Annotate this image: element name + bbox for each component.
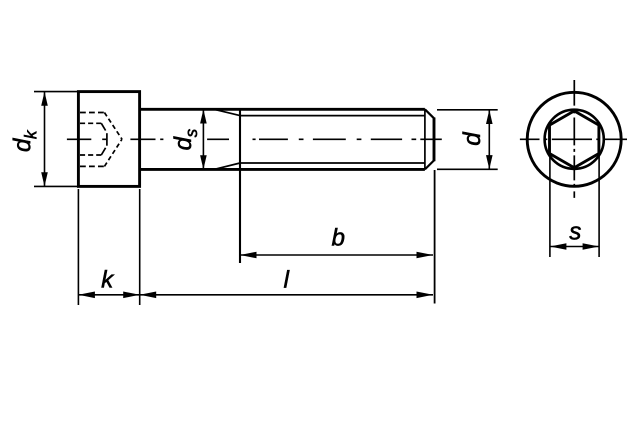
end view horizontal centerline bbox=[520, 138, 627, 140]
arrow ds bottom bbox=[200, 155, 207, 169]
dimension line dk bbox=[44, 92, 46, 187]
thread root top bbox=[240, 115, 425, 117]
socket hidden line top inner bbox=[80, 122, 101, 124]
extension line dk bottom bbox=[34, 185, 80, 187]
thread root bottom bbox=[240, 162, 425, 164]
end chamfer bottom bbox=[425, 160, 434, 169]
arrow d top bbox=[486, 110, 493, 124]
dimension line ds bbox=[202, 109, 204, 169]
socket cone inner bottom bbox=[101, 148, 105, 155]
socket hidden line top outer bbox=[80, 112, 104, 114]
end chamfer top bbox=[425, 109, 434, 118]
arrow b right bbox=[417, 252, 434, 259]
thread runout bottom bbox=[214, 163, 240, 169]
centerline side view bbox=[67, 138, 442, 140]
extension line k right / l left bbox=[139, 189, 141, 305]
label k bbox=[102, 270, 115, 287]
arrow dk bottom bbox=[41, 172, 48, 186]
extension line k left bbox=[77, 189, 79, 305]
arrow s left bbox=[550, 243, 567, 250]
label d bbox=[463, 132, 481, 145]
arrow l right bbox=[417, 292, 434, 299]
thread runout top bbox=[214, 109, 240, 115]
socket cone outer bottom bbox=[104, 139, 122, 166]
dimension line k bbox=[78, 294, 139, 296]
extension line dk top bbox=[34, 91, 80, 93]
dimension line b bbox=[240, 254, 433, 256]
end face bbox=[433, 118, 436, 162]
end view outer circle bbox=[527, 92, 621, 186]
shank top line bbox=[140, 108, 425, 111]
label l bbox=[284, 270, 289, 287]
label s bbox=[569, 226, 580, 239]
label ds bbox=[174, 129, 198, 149]
dimension line l bbox=[140, 294, 433, 296]
extension line d bottom bbox=[437, 168, 498, 170]
arrow d bottom bbox=[486, 155, 493, 169]
socket hidden line bottom outer bbox=[80, 165, 104, 167]
arrow l left bbox=[140, 292, 157, 299]
arrow dk top bbox=[41, 92, 48, 106]
extension line s right bbox=[598, 155, 600, 257]
dimension line s bbox=[550, 246, 599, 248]
arrow ds top bbox=[200, 109, 207, 123]
end view vertical centerline bbox=[573, 80, 575, 198]
shank bottom line bbox=[140, 168, 425, 171]
end view hexagon bbox=[550, 111, 599, 168]
extension line d top bbox=[437, 109, 498, 111]
dimension line d bbox=[488, 110, 490, 170]
arrow k right bbox=[123, 292, 140, 299]
extension line b left bbox=[239, 109, 241, 263]
arrow b left bbox=[240, 252, 257, 259]
arrow s right bbox=[583, 243, 600, 250]
extension line right end bbox=[434, 170, 436, 304]
head outline bbox=[78, 92, 139, 187]
socket cone inner top bbox=[101, 123, 105, 130]
end view socket circle bbox=[545, 110, 604, 169]
socket depth line bbox=[106, 133, 108, 146]
chamfer start line bbox=[424, 109, 426, 169]
socket hidden line bottom inner bbox=[80, 154, 101, 156]
socket cone outer top bbox=[104, 113, 122, 140]
extension line s left bbox=[549, 155, 551, 257]
label b bbox=[332, 228, 344, 246]
arrow k left bbox=[78, 292, 95, 299]
label dk bbox=[13, 130, 37, 151]
